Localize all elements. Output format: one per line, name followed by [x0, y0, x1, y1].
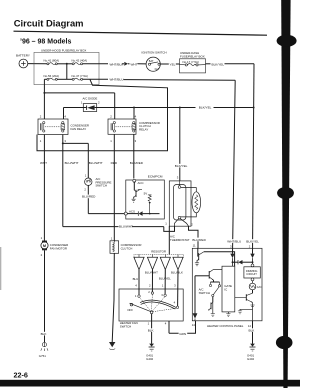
svg-text:G402: G402 — [146, 357, 153, 361]
wire BLU/WHT relay1 pin3 — [62, 135, 79, 227]
panel ground under Q4 — [250, 302, 254, 320]
wire BLK panel pin12 to ground — [248, 321, 257, 344]
wire branch y85 to heater circuit — [37, 80, 168, 151]
panel A/C switch — [199, 280, 221, 297]
label BLK/YEL at thermostat — [174, 164, 187, 168]
wire RED relay2 pin1 to clutch — [111, 134, 118, 241]
svg-text:2: 2 — [149, 284, 151, 288]
svg-text:WHT: WHT — [131, 63, 138, 67]
panel transistor Q2 — [195, 269, 222, 280]
fuse No.56 (20A) — [44, 74, 73, 81]
svg-text:BLU/BLK: BLU/BLK — [171, 271, 183, 275]
wire BLK/RED relay2 pin3 to ECM — [130, 134, 144, 178]
svg-text:BLK: BLK — [148, 329, 155, 333]
svg-text:BLK: BLK — [41, 332, 48, 336]
svg-text:12: 12 — [248, 324, 252, 328]
wire fuse41 to fuse42 with junction — [57, 63, 72, 65]
ECM ACC pin — [133, 179, 144, 185]
svg-text:22-6: 22-6 — [14, 371, 28, 380]
svg-text:FAN MOTOR: FAN MOTOR — [50, 247, 67, 251]
svg-text:SWITCH: SWITCH — [120, 325, 131, 329]
fuse No.17 (7.5A) — [180, 60, 206, 66]
panel dimming circuit — [244, 264, 260, 281]
svg-text:WHT/BLU: WHT/BLU — [227, 239, 241, 243]
svg-text:’96 – 98 Models: ’96 – 98 Models — [20, 38, 71, 45]
svg-text:2: 2 — [191, 223, 193, 227]
wire clutch to body ground — [109, 253, 115, 349]
svg-text:2: 2 — [110, 115, 112, 119]
svg-text:1: 1 — [81, 100, 83, 104]
wire BLK fan switch to ground — [147, 314, 156, 344]
condenser fan relay — [38, 115, 89, 143]
svg-text:BLU/WHT: BLU/WHT — [65, 161, 79, 165]
wire thermostat feed to resistor — [168, 226, 170, 254]
wire BLK/YEL drop to thermostat — [179, 107, 181, 181]
svg-text:IC: IC — [224, 288, 227, 292]
wire BLK/YEL vertical right side — [253, 64, 255, 254]
fuse No.41 (80A) — [44, 58, 60, 65]
ground G401 G402 middle — [146, 344, 155, 362]
resistor output wires to fan switch — [133, 270, 183, 307]
wire WHT/BLU — [83, 78, 236, 82]
battery — [16, 54, 30, 68]
ignition switch — [142, 51, 167, 72]
svg-text:No.41 (80A): No.41 (80A) — [44, 58, 60, 62]
left edge artifact — [0, 247, 2, 290]
svg-text:BLU/WHT: BLU/WHT — [145, 271, 158, 275]
svg-text:3: 3 — [177, 176, 179, 180]
fuse No.47 (7.5A) — [72, 74, 88, 81]
svg-text:14: 14 — [192, 323, 196, 327]
panel wire pin14 riser — [194, 276, 196, 314]
bottom black bar — [0, 380, 300, 387]
wire WHT/BLU vertical to panel — [233, 80, 236, 253]
svg-text:3: 3 — [135, 139, 137, 143]
wire WHT relay1 pin1 to motor — [40, 135, 47, 241]
svg-text:BATTERY: BATTERY — [16, 54, 30, 58]
svg-text:BLK/YEL: BLK/YEL — [212, 63, 225, 67]
wire WHT feed from fuse 56 — [43, 79, 45, 119]
svg-text:BLK/YEL: BLK/YEL — [175, 164, 188, 168]
A/C thermostat — [169, 176, 200, 242]
svg-text:3: 3 — [64, 139, 66, 143]
wire BLK/YEL top right — [206, 63, 255, 67]
svg-text:BLU/RED: BLU/RED — [82, 195, 96, 199]
svg-text:3: 3 — [174, 284, 176, 288]
panel Q1 ground — [195, 261, 199, 266]
ground G751 — [39, 342, 48, 358]
svg-text:G751: G751 — [39, 354, 46, 358]
svg-text:YEL: YEL — [170, 63, 176, 67]
svg-text:CLUTCH: CLUTCH — [121, 247, 133, 251]
svg-text:IGNITION SWITCH: IGNITION SWITCH — [142, 51, 167, 55]
svg-text:4: 4 — [165, 322, 167, 326]
svg-text:4: 4 — [135, 115, 137, 119]
svg-text:A/C: A/C — [257, 285, 262, 289]
svg-text:WHT/BLK: WHT/BLK — [110, 63, 125, 67]
svg-text:SWITCH: SWITCH — [199, 291, 210, 295]
svg-text:RESISTOR: RESISTOR — [151, 250, 166, 254]
svg-text:2: 2 — [84, 187, 86, 191]
wire BLK motor to ground — [40, 250, 49, 342]
panel diode between nodes — [233, 260, 253, 264]
svg-text:2: 2 — [98, 100, 100, 104]
under-hood fuse/relay box — [34, 49, 99, 85]
svg-text:4: 4 — [64, 115, 66, 119]
svg-text:BLU/WHT: BLU/WHT — [119, 225, 133, 229]
svg-text:BLU/RED: BLU/RED — [192, 238, 206, 242]
svg-text:BLU/YEL: BLU/YEL — [159, 277, 171, 281]
wire WHT bus to compressor relay — [44, 93, 114, 119]
resistor assembly — [134, 250, 184, 270]
heater fan switch — [119, 289, 183, 329]
svg-text:1: 1 — [162, 284, 164, 288]
svg-text:3: 3 — [230, 244, 232, 248]
svg-text:G402: G402 — [247, 357, 254, 361]
panel transistor Q4 — [235, 290, 253, 303]
svg-text:BLU: BLU — [133, 277, 139, 281]
panel transistor Q1 — [196, 248, 204, 261]
wire battery to fuse box — [28, 63, 47, 65]
svg-text:5V: 5V — [144, 191, 148, 195]
svg-text:ECM/PCM: ECM/PCM — [148, 175, 163, 179]
panel ground left of pin12 — [238, 309, 253, 314]
A/C pressure switch — [84, 174, 111, 192]
svg-text:BLK/YEL: BLK/YEL — [199, 106, 212, 110]
panel ground under gate IC — [226, 312, 230, 317]
binder bar right — [276, 0, 297, 388]
svg-text:1: 1 — [40, 139, 42, 143]
svg-text:1: 1 — [165, 221, 167, 225]
svg-text:RELAY: RELAY — [139, 128, 148, 132]
A/C diode — [64, 96, 115, 111]
svg-text:FUSE/RELAY BOX: FUSE/RELAY BOX — [180, 54, 205, 58]
panel A/C indicator lamp — [249, 281, 261, 290]
svg-text:BAT: BAT — [149, 60, 154, 63]
wire GRN fan switch to panel pin14 — [169, 321, 196, 336]
svg-text:BLK: BLK — [249, 329, 256, 333]
svg-text:4: 4 — [135, 284, 137, 288]
fuse row2 feed stub — [66, 64, 68, 80]
svg-text:No.56 (20A): No.56 (20A) — [44, 74, 60, 78]
panel diode pin14 — [193, 314, 197, 321]
panel wire Q1 collector to gate IC — [204, 252, 235, 267]
compressor clutch relay — [108, 115, 160, 143]
svg-text:WHT/BLU: WHT/BLU — [110, 78, 124, 82]
wire BLU/WHT branch to pressure switch — [63, 143, 103, 178]
wire BLU/RED thermostat pin2 to panel pin11 — [189, 223, 207, 249]
svg-text:1: 1 — [135, 294, 137, 298]
svg-text:DIMMING: DIMMING — [246, 269, 258, 273]
wire WHT/BLK to WHT — [83, 62, 147, 67]
panel transistor Q3 — [208, 297, 213, 314]
svg-text:BLK/YEL: BLK/YEL — [246, 239, 259, 243]
svg-text:ACC: ACC — [138, 181, 144, 185]
svg-text:ACS: ACS — [129, 209, 135, 213]
svg-text:BLU/WHT: BLU/WHT — [89, 161, 103, 165]
svg-text:BLK/RED: BLK/RED — [130, 161, 144, 165]
svg-text:No.47 (7.5A): No.47 (7.5A) — [72, 74, 88, 78]
svg-text:4: 4 — [174, 300, 176, 304]
wire relay1 pin4 riser — [63, 108, 65, 120]
svg-text:WHT: WHT — [40, 161, 47, 165]
svg-text:11: 11 — [193, 244, 196, 248]
svg-text:2: 2 — [41, 253, 43, 257]
svg-text:1: 1 — [41, 236, 43, 240]
svg-text:SWITCH: SWITCH — [96, 184, 107, 188]
svg-text:GRN: GRN — [179, 332, 186, 336]
svg-text:CIRCUIT: CIRCUIT — [246, 272, 257, 276]
wire BLU/WHT to thermostat pin1 — [63, 221, 175, 231]
svg-text:No.42 (40A): No.42 (40A) — [72, 58, 88, 62]
svg-text:3: 3 — [161, 293, 163, 297]
svg-text:1: 1 — [148, 322, 150, 326]
ground G401 G402 right — [247, 344, 256, 362]
panel diode WHT/BLU — [230, 254, 234, 267]
svg-text:A/C DIODE: A/C DIODE — [83, 96, 98, 100]
svg-text:THERMOSTAT: THERMOSTAT — [170, 238, 190, 242]
svg-text:FAN RELAY: FAN RELAY — [71, 127, 87, 131]
wire BLK/YEL bus y107.5 — [115, 106, 255, 119]
label BLK/YEL pin2 — [246, 239, 259, 248]
svg-text:Circuit Diagram: Circuit Diagram — [14, 17, 84, 28]
heater control panel box — [192, 248, 262, 327]
label WHT/BLU pin3 — [227, 239, 241, 248]
svg-text:M: M — [43, 244, 46, 248]
svg-text:1: 1 — [85, 174, 87, 178]
svg-text:IG2: IG2 — [155, 68, 160, 71]
panel diode BLK/YEL — [250, 254, 254, 265]
title Circuit Diagram — [14, 17, 268, 35]
svg-text:1: 1 — [110, 139, 112, 143]
ECM 5V pullup resistor — [144, 191, 152, 214]
ECM ACS pin and diode — [124, 209, 159, 216]
wire YEL — [160, 63, 179, 67]
svg-text:No.17 (7.5A): No.17 (7.5A) — [183, 60, 199, 64]
ECM/PCM box — [126, 175, 165, 219]
svg-text:2: 2 — [249, 244, 251, 248]
svg-text:OFF: OFF — [127, 308, 133, 312]
svg-text:HEATER CONTROL PANEL: HEATER CONTROL PANEL — [207, 324, 244, 328]
svg-text:RED: RED — [111, 161, 118, 165]
wire BLU/RED to ECM ACS — [82, 185, 126, 213]
svg-text:2: 2 — [40, 115, 42, 119]
fuse No.42 (40A) — [72, 58, 88, 65]
condenser fan motor — [41, 236, 69, 257]
under-dash fuse/relay box — [180, 51, 206, 73]
svg-text:2: 2 — [148, 290, 150, 294]
panel gate IC — [222, 266, 235, 312]
svg-text:1: 1 — [111, 237, 113, 241]
panel ground under Q3 — [211, 314, 215, 317]
ECM transistor ACC — [132, 182, 142, 203]
compressor clutch — [110, 237, 141, 254]
svg-text:UNDER-HOOD FUSE/RELAY BOX: UNDER-HOOD FUSE/RELAY BOX — [41, 49, 86, 53]
